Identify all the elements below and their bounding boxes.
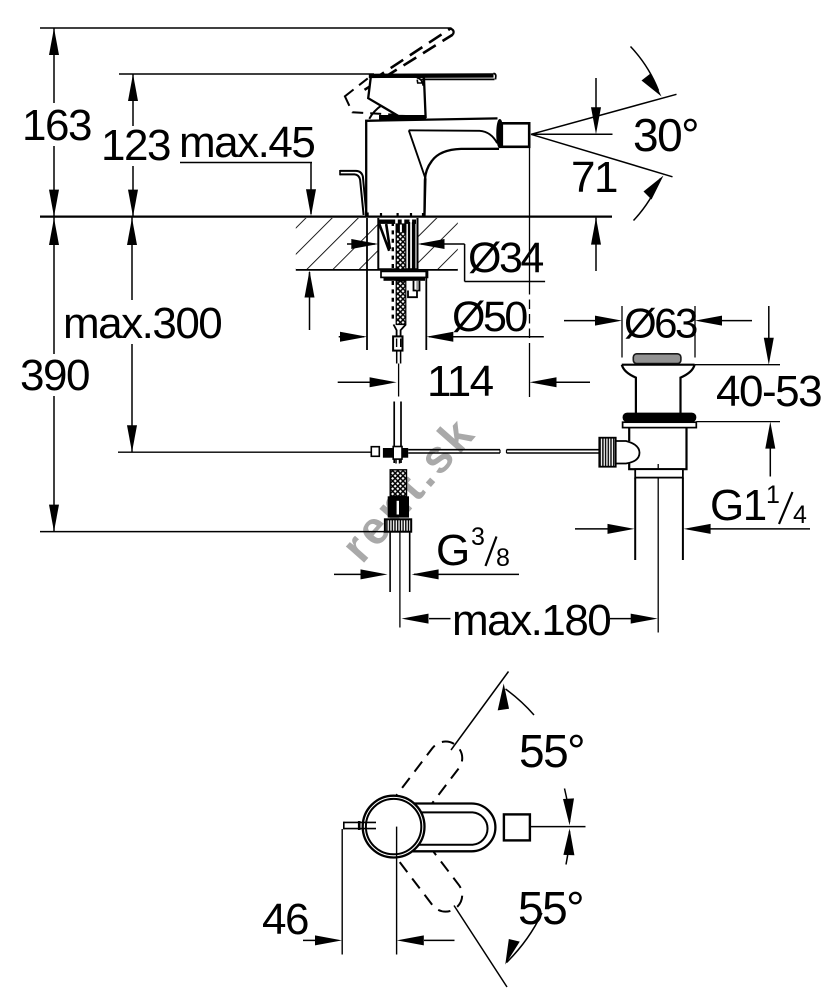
dimension G3/8: [334, 573, 519, 575]
arrow max300 down: [127, 425, 137, 452]
shank dashed rod line lower: [392, 281, 394, 323]
shank crimp collar: [396, 224, 407, 233]
arrow d50 right: [426, 332, 453, 342]
arrow 390 up: [49, 218, 59, 245]
arrow d63 left: [595, 316, 622, 326]
watermark rent.sk: [331, 406, 486, 572]
handle dashed base outline: [345, 76, 415, 115]
arrow 4053 down: [764, 338, 774, 365]
hole edge right: [417, 218, 419, 270]
hatch right zone: [418, 218, 458, 269]
horizontal rod segments: [408, 450, 599, 453]
arrow 46 left: [315, 935, 342, 945]
drain gasket: [623, 413, 697, 423]
shank step2: [408, 291, 417, 298]
46 left extension line: [341, 829, 343, 955]
shank dashed rod line: [392, 222, 394, 269]
hatch left zone: [296, 218, 379, 269]
arrow max180 left: [402, 614, 429, 624]
drain centerline: [657, 464, 659, 633]
dashed handle at -55 (down): [390, 829, 469, 918]
shank dark bars right: [408, 222, 410, 269]
handle base bottom thick edge: [379, 115, 426, 120]
svg-text:390: 390: [20, 351, 89, 400]
arrow 114 left: [370, 377, 397, 387]
dimension max300 vertical line: [131, 217, 133, 300]
spout inner top line: [409, 130, 497, 143]
drain collar: [635, 469, 683, 477]
svg-text:30°: 30°: [633, 109, 698, 161]
arrow d63 right: [695, 316, 722, 326]
spout underside: [424, 149, 499, 217]
svg-text:8: 8: [496, 544, 509, 572]
shank braided hose lower: [396, 281, 406, 325]
horizontal rod left stub: [371, 447, 379, 457]
base ticks at counter: [368, 213, 423, 217]
arrow 55 lower-bottom: [501, 937, 523, 964]
wire bottom reference line 390: [40, 531, 386, 533]
arrow 55 upper-top: [498, 683, 513, 712]
hose braid: [390, 470, 406, 497]
shank connector: [393, 336, 402, 350]
dimension 30deg arcs: [631, 47, 661, 221]
arrow 123 up: [128, 74, 138, 101]
dimension max.180: [429, 618, 632, 620]
shank braided hose upper: [396, 224, 406, 270]
svg-text:Ø34: Ø34: [468, 234, 543, 282]
arrow max300 up: [127, 218, 137, 245]
drain cap: [633, 354, 681, 364]
shank rod below connector: [397, 351, 401, 364]
top view rod left: [344, 821, 376, 830]
handle base right notch curve: [417, 78, 424, 86]
line -55: [454, 906, 507, 988]
shank step1: [414, 281, 420, 291]
extension lines: [366, 218, 368, 350]
svg-text:55°: 55°: [519, 725, 584, 777]
knob tenon: [616, 441, 640, 464]
top view axis line: [530, 826, 586, 828]
wire top reference line 163: [40, 27, 452, 29]
svg-text:Ø63: Ø63: [624, 300, 697, 347]
arrow d34 right: [418, 239, 445, 249]
svg-text:114: 114: [427, 357, 494, 406]
wire countertop line: [40, 216, 612, 218]
drain flange: [622, 365, 695, 414]
shank taper: [394, 325, 406, 337]
arrow 30deg lower: [644, 176, 664, 200]
pop-up rod knob left: [340, 170, 367, 215]
arrow d34 left: [351, 239, 378, 249]
arrow 55 lower-top: [563, 828, 574, 855]
svg-text:3: 3: [471, 523, 484, 551]
drain tailpipe: [635, 478, 683, 560]
arrow 71 up: [591, 218, 601, 245]
svg-text:71: 71: [571, 153, 617, 202]
arrow d50 left: [340, 332, 367, 342]
handle base top thick edge: [369, 73, 494, 78]
body circle inner: [366, 799, 421, 854]
wire reference line 123: [119, 73, 374, 75]
dimension G1 1/4: [575, 528, 810, 530]
handle dashed raised lever: [365, 29, 454, 90]
handle base cover: [368, 76, 425, 117]
drain upper body band: [623, 422, 697, 427]
pull rod hairline: [398, 364, 400, 397]
shank flange nut band: [384, 277, 426, 280]
pipe centerline: [399, 532, 401, 628]
spout inner diagonal: [409, 130, 426, 216]
vertical rod: [394, 402, 401, 464]
handle lever bar: [417, 73, 496, 83]
arrow g114 right: [684, 524, 711, 534]
55deg arcs lower: [507, 831, 570, 962]
hose big nut: [385, 519, 411, 531]
arrow 390 down: [49, 505, 59, 532]
faucet body: [366, 118, 499, 216]
G3/8 pipe: [390, 532, 410, 592]
spray cone lines: [531, 94, 677, 177]
svg-text:46: 46: [262, 895, 308, 944]
knurled knob: [599, 438, 615, 467]
arrow g38 right: [412, 569, 439, 579]
shank top fitting band: [379, 220, 416, 224]
arrow 163 down: [49, 190, 59, 217]
dimension 390 vertical line: [53, 217, 55, 354]
wire counter bottom line: [296, 268, 458, 271]
arrow 30deg upper: [642, 74, 662, 97]
hole edge left: [377, 218, 379, 270]
svg-text:max.300: max.300: [63, 299, 221, 348]
clamp block: [383, 448, 408, 458]
dimension Ø63: [564, 306, 752, 358]
55deg arcs upper: [506, 689, 570, 822]
svg-text:55°: 55°: [518, 882, 583, 934]
arrow max45 up: [305, 271, 315, 298]
svg-text:Ø50: Ø50: [452, 293, 527, 341]
svg-text:G1: G1: [710, 481, 766, 530]
arrow g38 left: [361, 569, 388, 579]
aerator square: [502, 123, 529, 147]
dimension 163 vertical line: [53, 28, 55, 103]
aerator extension line: [529, 148, 531, 285]
dimension max45 leader: [180, 162, 312, 164]
svg-text:40-53: 40-53: [716, 367, 821, 416]
arrow 71 down: [591, 107, 601, 134]
top view center vertical line: [396, 827, 398, 955]
svg-text:max.45: max.45: [179, 118, 314, 167]
svg-text:4: 4: [793, 501, 807, 529]
handle top view outer: [392, 804, 495, 852]
drain body: [629, 428, 686, 470]
arrow max180 right: [631, 614, 658, 624]
top view square: [504, 814, 530, 840]
svg-text:1: 1: [766, 481, 779, 509]
svg-text:123: 123: [101, 121, 170, 170]
dimension 123 vertical line: [132, 74, 134, 126]
arrow 55 upper-bottom: [563, 798, 574, 825]
arrow 114 right: [530, 377, 557, 387]
svg-text:163: 163: [22, 101, 91, 150]
dimension 46: [303, 939, 455, 941]
handle top view inner: [392, 812, 488, 844]
arrow max45 down: [306, 189, 316, 216]
wire reference line max300 / rod line: [118, 451, 380, 453]
arrow 163 up: [49, 28, 59, 55]
shank flange plate: [381, 271, 428, 277]
svg-text:max.180: max.180: [452, 596, 610, 645]
line +55: [451, 672, 509, 751]
arrow 46 right: [397, 935, 424, 945]
svg-text:G: G: [436, 526, 469, 575]
arrow g114 left: [608, 524, 635, 534]
hose black nut: [388, 496, 409, 517]
arrow 123 down: [128, 190, 138, 217]
body circle outer: [363, 796, 425, 858]
handle base bottom-left arc: [369, 106, 381, 119]
arrow 4053 up: [765, 422, 775, 449]
rod below clamp: [396, 459, 400, 464]
dashed handle at +55 (up): [390, 735, 469, 824]
dimension 71: [595, 78, 597, 271]
shank wedge: [379, 224, 390, 251]
dimension 40-53: [695, 306, 780, 477]
aerator end face ellipse: [497, 120, 503, 148]
